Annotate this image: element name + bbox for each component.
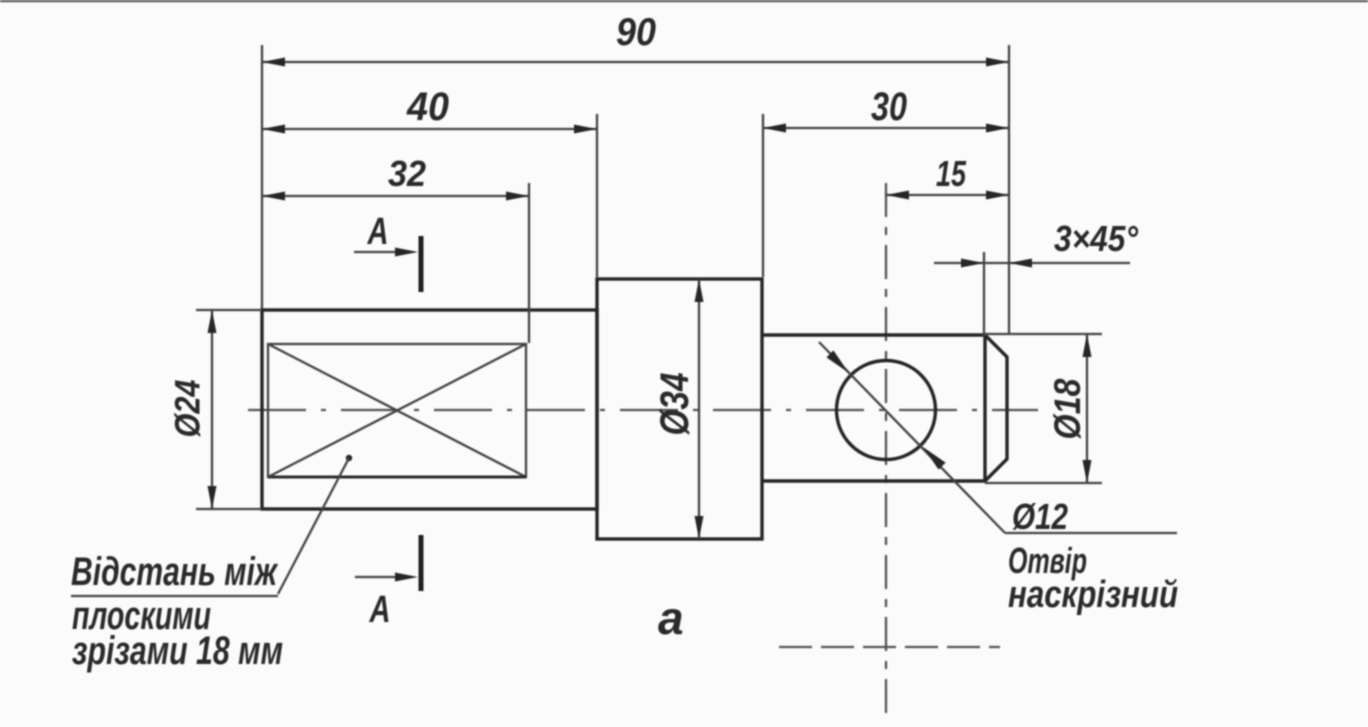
dimension 90: extension line right <box>1008 45 1010 334</box>
dimension 32: right arrowhead <box>506 192 529 201</box>
dimension d18: dimension line <box>1086 334 1088 483</box>
dimension 30: extension line left <box>762 114 764 277</box>
svg-text:40: 40 <box>406 85 449 129</box>
dimension d34: dimension line <box>698 279 700 539</box>
svg-text:Ø24: Ø24 <box>169 380 208 438</box>
hole d12 leader lower arrowhead <box>923 447 946 470</box>
chamfer start line <box>983 335 986 481</box>
dimension 90: right arrowhead <box>986 58 1009 67</box>
section A top: arrow line <box>354 251 400 253</box>
chamfer dimension: left arrowhead pointing right <box>961 259 984 268</box>
flat cut rectangle bottom edge (thick) <box>268 476 526 479</box>
svg-text:А: А <box>369 589 391 631</box>
dimension d34: bottom arrowhead <box>695 516 704 539</box>
svg-text:наскрізний: наскрізний <box>1008 574 1178 616</box>
dimension d24: bottom arrowhead <box>208 486 217 509</box>
dimension d24: dimension line <box>211 310 213 509</box>
flat cut diagonal 1 <box>268 344 526 477</box>
dimension 30: left arrowhead <box>763 124 786 133</box>
dimension 40: extension line right <box>596 114 598 277</box>
section A bottom: arrowhead <box>395 573 418 582</box>
dimension d34: top arrowhead <box>695 279 704 302</box>
bottom horizontal center line segment <box>779 646 1000 648</box>
svg-text:Ø18: Ø18 <box>1047 378 1088 439</box>
dimension 15: left arrowhead <box>886 191 909 200</box>
svg-text:Ø34: Ø34 <box>653 373 697 436</box>
dimension 90: dimension line <box>262 61 1009 63</box>
middle cylinder outline (d34 body) <box>597 279 762 539</box>
section A bottom: arrow line <box>355 576 400 578</box>
chamfer dimension: extension line <box>983 252 985 336</box>
svg-text:32: 32 <box>388 153 426 194</box>
section A top: cutting plane bar <box>419 236 424 292</box>
svg-text:15: 15 <box>936 153 967 194</box>
flat cut diagonal 2 <box>268 344 526 477</box>
hole d12 leader shelf <box>1005 532 1177 534</box>
hole d12 leader diagonal line <box>819 342 1005 533</box>
through hole circle d12 <box>837 361 936 460</box>
section A bottom: cutting plane bar <box>419 535 424 591</box>
dimension 40: right arrowhead <box>574 125 597 134</box>
svg-text:Відстань між: Відстань між <box>71 550 279 594</box>
dimension d18: extension line bottom <box>985 482 1102 484</box>
svg-text:зрізами 18 мм: зрізами 18 мм <box>72 629 283 673</box>
dimension 32: extension line right <box>528 183 530 343</box>
dimension 90: left arrowhead <box>262 58 285 67</box>
dimension 32: dimension line <box>262 195 529 197</box>
dimension d24: top arrowhead <box>208 310 217 333</box>
dimension d18: extension line top <box>985 333 1102 335</box>
dimension 32: left arrowhead <box>262 192 285 201</box>
dimension 30: right arrowhead <box>986 124 1009 133</box>
dimension 30: dimension line <box>763 127 1009 129</box>
chamfer dimension: dimension line <box>934 262 1130 264</box>
chamfer dimension: right arrowhead pointing left <box>1009 259 1032 268</box>
dimension 15: right arrowhead <box>986 191 1009 200</box>
svg-text:Ø12: Ø12 <box>1012 496 1068 537</box>
right cylinder outline with chamfer (d18 body) <box>762 335 1007 481</box>
dimension d18: top arrowhead <box>1083 334 1092 357</box>
svg-text:А: А <box>367 211 389 253</box>
left cylinder outline (d24 body) <box>262 310 597 509</box>
dimension d24: extension line top <box>196 309 262 311</box>
scan edge line at top <box>0 0 1368 2</box>
dimension 40: dimension line <box>262 128 597 130</box>
svg-text:90: 90 <box>616 11 656 54</box>
dimension d18: bottom arrowhead <box>1083 460 1092 483</box>
flats note leader dot <box>346 455 352 461</box>
dimension 40: left arrowhead <box>262 125 285 134</box>
dimension d24: extension line bottom <box>196 508 262 510</box>
dimension 90: extension line left <box>261 45 263 309</box>
section A top: arrowhead <box>395 248 418 257</box>
svg-text:30: 30 <box>871 85 907 129</box>
flats note leader line <box>278 458 349 594</box>
vertical center line of hole <box>885 183 887 720</box>
flats note underline <box>71 595 278 597</box>
flat cut rectangle <box>268 344 526 477</box>
svg-text:а: а <box>658 592 684 644</box>
svg-text:3×45°: 3×45° <box>1054 218 1139 259</box>
horizontal center line (part axis) <box>248 409 1038 411</box>
dimension 15: dimension line <box>886 194 1009 196</box>
hole d12 leader upper arrowhead <box>826 350 849 373</box>
